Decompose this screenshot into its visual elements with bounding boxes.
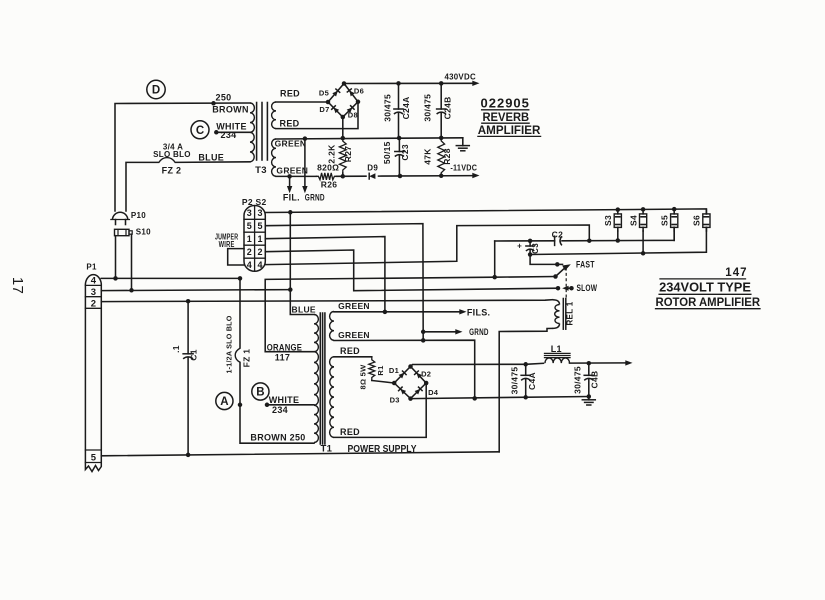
svg-text:S3: S3 [603,215,613,226]
wire P1 pin5 bottom rail [101,452,499,457]
svg-text:R1: R1 [376,365,385,375]
transformer T3 core [257,103,268,161]
label 30/475 (C4A) [509,367,519,395]
contact SLOW [562,286,574,291]
label 8Ω5W [358,364,367,390]
svg-text:147: 147 [725,267,747,279]
label S6 [692,215,702,226]
inductor L1 [545,353,571,363]
label R26 [321,180,338,190]
diode D2 [415,371,423,379]
label POWER SUPPLY [348,443,417,455]
label 30/475 (C24B) [422,94,432,122]
svg-text:C4B: C4B [589,371,599,389]
wire T1 green-bottom [334,338,477,401]
svg-text:D5: D5 [319,88,329,97]
capacitor C4B [584,363,593,396]
label + (C3) [517,242,522,251]
label GREEN bottom [276,166,308,176]
wire S10 to P1 pin3 [129,234,134,292]
capacitor C4A [521,364,530,397]
svg-text:AMPLIFIER: AMPLIFIER [478,123,541,137]
socket S4 [640,210,647,254]
transformer T3 secondary winding (GREEN) [272,139,276,176]
transformer T1 secondary winding (GREEN) [330,312,334,341]
label D1 [389,366,399,375]
svg-text:4: 4 [91,275,97,286]
wire T3 green-bottom rail to -11VDC [276,173,480,179]
svg-text:30/475: 30/475 [422,94,432,122]
label -11VDC [450,163,477,173]
wire P2S2 pin5 to green-bottom and GRND [265,224,425,341]
P2 pin 1 [247,234,252,244]
label P1 [86,263,97,272]
label 30/475 (C24A) [383,94,393,122]
svg-text:FZ 2: FZ 2 [162,166,182,176]
label 234 (T1) [272,405,288,415]
svg-text:022905: 022905 [481,95,530,110]
svg-text:1: 1 [247,234,252,244]
svg-text:C23: C23 [400,144,410,161]
bridge rectifier D1-D4 diamond [392,364,429,401]
label D3 [390,395,400,404]
svg-text:3: 3 [257,208,262,218]
wire P2S2 pin3 S-boxes top line [265,207,706,215]
wire bridge bottom to ground rail [341,117,346,140]
label S10 [136,227,151,236]
label 1-1/2A SLO BLO [225,315,234,373]
label S4 [628,215,638,226]
diode D3 [399,387,407,394]
label D9 [367,164,378,173]
wire BLUE tap from P2S2 pin3 [290,213,314,315]
svg-text:RED: RED [340,427,360,437]
diode D7 [332,106,339,113]
svg-text:FAST: FAST [576,260,595,270]
label C24B [442,96,452,119]
title 147 234VOLT TYPE ROTOR AMPLIFIER [656,267,761,309]
svg-text:GREEN: GREEN [338,301,370,311]
capacitor C23 [395,138,404,176]
ground (reverb supply) [456,138,469,151]
svg-text:FILS.: FILS. [467,307,491,317]
label D6 [354,87,364,96]
diode D6 [347,89,354,97]
svg-text:1-1/2A SLO BLO: 1-1/2A SLO BLO [225,315,234,373]
label .1 (C1) [171,345,181,353]
svg-text:GREEN: GREEN [276,166,308,176]
label BLUE (T1) [292,304,316,314]
label WHITE [216,122,247,132]
arrow FIL. [287,176,292,193]
resistor R27 [339,138,346,176]
label FILS. [467,307,491,317]
label 117 [275,352,290,362]
label C2 [552,230,563,240]
svg-text:GREEN: GREEN [338,330,370,340]
S2 pin 2 [257,247,262,257]
P2 pin 5 [247,221,252,231]
label FZ 2 [162,166,182,176]
wire P1 pin2 to relay REL1 [101,299,552,304]
svg-text:234VOLT TYPE: 234VOLT TYPE [659,281,751,295]
S2 pin 5 [257,221,262,231]
connector P1 body [85,275,101,472]
svg-text:ROTOR AMPLIFIER: ROTOR AMPLIFIER [656,295,761,309]
wire S10 to P1 pin4 [113,236,118,281]
label D7 [319,105,329,114]
svg-text:5: 5 [247,221,252,231]
wire REL1 bottom to supply rail [499,328,552,451]
label R27 [343,146,353,163]
connector P2/S2 body [244,205,265,271]
svg-text:BLUE: BLUE [292,304,316,314]
label 50/15 [382,141,392,164]
transformer T3 primary winding [250,103,254,162]
arrow GRND (T3) [302,139,307,194]
wire S-boxes bottom bus [530,227,706,255]
svg-text:RED: RED [280,88,300,98]
jumper wire P2 pins 2-4 [228,249,244,265]
svg-text:P10: P10 [131,211,146,220]
ground (C4B) [582,397,595,406]
fuse FZ2 label 3/4 A [163,142,183,151]
svg-text:234: 234 [272,405,288,415]
P2 pin 2 [247,247,252,257]
wire P2S2 pin4 to C2 node [265,225,589,265]
diode D4 [415,387,423,394]
svg-text:5: 5 [257,221,262,231]
label D4 [428,388,439,397]
svg-text:C1: C1 [189,349,199,360]
svg-text:234: 234 [221,130,237,140]
svg-text:L1: L1 [551,344,562,354]
label D8 [348,111,358,120]
svg-text:D8: D8 [348,111,358,120]
transformer T1 primary winding [314,315,318,443]
label 430VDC [444,72,476,82]
svg-text:SLOW: SLOW [577,283,598,293]
svg-text:R27: R27 [343,146,353,163]
socket S5 [671,210,678,241]
fuse FZ1 [235,278,314,443]
label GRND (T1) [469,327,489,337]
svg-text:S6: S6 [692,215,702,226]
svg-text:T3: T3 [255,165,267,176]
svg-text:FIL.: FIL. [283,193,300,203]
fuse FZ2 label SLO BLO [153,150,191,159]
svg-text:117: 117 [275,352,290,362]
wire P1 pin4 to fuse FZ1 [101,276,242,281]
svg-text:ORANGE: ORANGE [267,342,302,352]
label FAST [576,260,595,270]
label T3 [255,165,267,176]
svg-text:47K: 47K [422,148,432,165]
plug P10 [111,212,129,224]
svg-text:S5: S5 [659,215,669,226]
svg-text:REVERB: REVERB [482,110,529,124]
label RED (T1 bottom) [340,427,360,437]
svg-text:B: B [256,387,264,399]
svg-text:C: C [196,125,204,137]
svg-text:2: 2 [91,298,97,309]
capacitor C24A [394,83,403,138]
wire T3 green-top rail [276,136,463,141]
wire 430VDC rail [344,81,480,86]
label C23 [400,144,410,161]
svg-text:POWER SUPPLY: POWER SUPPLY [348,443,417,455]
title 022905 REVERB AMPLIFIER [478,95,541,137]
svg-text:C4A: C4A [527,372,537,390]
label JUMPER [215,232,238,241]
socket S10 [115,229,133,235]
svg-text:8Ω 5W: 8Ω 5W [358,364,367,390]
P1 pin 3 [91,287,97,298]
label 2.2K [327,144,337,164]
diode D5 [332,89,339,97]
svg-text:GRND: GRND [305,193,325,203]
bridge rectifier D5-D8 diamond [326,81,361,119]
wire FAST contact feed from C3 [530,255,557,265]
label T1 [321,443,333,454]
svg-text:RED: RED [340,346,360,356]
label S3 [603,215,613,226]
P2 pin 3 [247,208,252,218]
svg-text:T1: T1 [321,443,333,454]
label S5 [659,215,669,226]
svg-text:C24B: C24B [442,96,452,119]
svg-text:.1: .1 [171,345,181,353]
svg-text:GREEN: GREEN [275,139,307,149]
label C3 [531,243,540,254]
label 47K [422,148,432,165]
diode D9 [369,173,375,179]
svg-text:2: 2 [257,247,262,257]
wire ORANGE tap to rotor switch common [265,275,555,352]
callout C [191,121,209,139]
diode D1 [399,371,407,379]
svg-text:820Ω: 820Ω [317,163,339,173]
relay armature dashed link [565,268,567,299]
S2 pin 3 [257,208,262,218]
svg-text:30/475: 30/475 [509,367,519,395]
label C4A [527,372,537,390]
P1 pin 2 [91,298,97,309]
svg-text:FZ 1: FZ 1 [241,349,251,368]
label 250 [216,92,232,102]
label GREEN (T1 top) [338,301,370,311]
svg-text:WHITE: WHITE [269,395,300,405]
P2 pin 4 [247,260,252,270]
svg-text:GRND: GRND [469,327,489,337]
svg-text:D1: D1 [389,366,399,375]
label SLOW [577,283,598,293]
label D5 [319,88,329,97]
label RED bottom [280,119,300,129]
label WIRE [219,240,235,249]
wire T1 green-top to FILS. [334,309,467,314]
contact FAST and armature [553,262,571,279]
wire P1 pin3 to node [101,287,292,292]
label GREEN (T1 bottom) [338,330,370,340]
label 17 [9,277,26,294]
label L1 [551,344,562,354]
svg-text:2.2K: 2.2K [327,144,337,164]
socket S3 [614,210,621,241]
label BLUE (T3) [198,153,224,163]
svg-text:430VDC: 430VDC [444,72,476,82]
wire P2S2 pin2 to SLOW contact [265,250,560,291]
svg-text:SLO BLO: SLO BLO [153,150,191,159]
S2 pin 1 [257,234,262,244]
wire 250 BROWN tap to P10 [115,101,250,211]
label ORANGE [267,342,302,352]
svg-text:S10: S10 [136,227,151,236]
svg-text:-11VDC: -11VDC [450,163,477,173]
label P2 S2 [242,197,267,207]
P1 pin 4 [91,275,97,286]
wire RED bottom tap to bridge [334,383,426,437]
label R28 [442,148,452,165]
svg-text:C3: C3 [531,243,540,254]
svg-text:D: D [152,85,160,97]
label BROWN [212,104,249,114]
wire RED top tap to bridge [276,101,328,103]
label R1 [376,365,385,375]
label GREEN top [275,139,307,149]
svg-text:BROWN 250: BROWN 250 [250,433,305,443]
svg-text:1: 1 [257,234,262,244]
capacitor C1 [183,301,193,455]
svg-text:C24A: C24A [401,96,411,119]
svg-text:30/475: 30/475 [383,94,393,122]
label FZ 1 [241,349,251,368]
svg-text:3: 3 [91,287,97,298]
svg-text:REL 1: REL 1 [566,301,575,325]
wire RED bottom tap to bridge [276,102,358,129]
svg-text:4: 4 [247,260,252,270]
label RED (T1 top) [340,346,360,356]
svg-text:BROWN: BROWN [212,104,249,114]
svg-text:5: 5 [91,452,97,463]
svg-text:50/15: 50/15 [382,141,392,164]
socket S6 [703,210,710,232]
capacitor C24B [437,83,446,138]
svg-text:A: A [220,396,228,408]
transformer T1 secondary winding (RED) [330,357,334,438]
wire BLUE tap with fuse to P10 [126,158,250,211]
label RED top [280,88,300,98]
svg-text:D4: D4 [428,388,439,397]
wire P2S2 pin1 to green-top [265,237,385,312]
label C4B [589,371,599,389]
callout B [252,383,269,400]
svg-text:P1: P1 [86,263,97,272]
label BROWN 250 [250,433,305,443]
svg-text:WIRE: WIRE [219,240,235,249]
svg-text:S4: S4 [628,215,638,226]
svg-text:2: 2 [247,247,252,257]
capacitor C2 [555,236,562,245]
svg-text:D2: D2 [421,369,431,378]
relay coil REL1 [553,299,566,330]
svg-text:R26: R26 [321,180,338,190]
transformer T1 core [320,313,325,444]
svg-text:BLUE: BLUE [198,153,224,163]
wire bridge- bottom rail [411,394,592,399]
diode D8 [347,106,354,113]
label FIL. [283,193,300,203]
svg-text:R28: R28 [442,148,452,165]
resistor R26 [316,173,336,180]
wire RED top tap to R1 [334,356,372,358]
svg-text:D9: D9 [367,164,378,173]
wire bridge+ to L1 output arrow [411,360,633,366]
wire WHITE 234 tap [214,130,250,135]
svg-text:30/475: 30/475 [573,366,583,394]
label C24A [401,96,411,119]
wire C2/C3 top line [495,227,675,277]
resistor R28 [438,138,445,176]
svg-text:17: 17 [9,277,26,294]
svg-text:D6: D6 [354,87,364,96]
label 820Ω [317,163,339,173]
label D2 [421,369,431,378]
svg-text:4: 4 [257,260,262,270]
capacitor C3 [526,241,534,257]
S2 pin 4 [257,260,262,270]
resistor R1 [369,357,394,383]
callout A [216,392,233,409]
label 234 [221,130,237,140]
transformer T3 secondary winding (RED) [272,102,276,129]
wire WHITE 234 tap (T1) [265,403,314,408]
label 30/475 (C4B) [573,366,583,394]
label P10 [131,211,146,220]
label REL 1 [566,301,575,325]
label GRND (T3) [305,193,325,203]
svg-text:D7: D7 [319,105,329,114]
svg-text:+: + [517,242,522,251]
P1 pin 5 [91,452,97,463]
label C1 [189,349,199,360]
label WHITE (T1) [269,395,300,405]
svg-text:250: 250 [216,92,232,102]
svg-text:3: 3 [247,208,252,218]
arrow GRND (T1) [423,329,462,334]
svg-text:RED: RED [280,119,300,129]
svg-text:D3: D3 [390,395,400,404]
svg-text:C2: C2 [552,230,563,240]
callout D [147,80,165,98]
